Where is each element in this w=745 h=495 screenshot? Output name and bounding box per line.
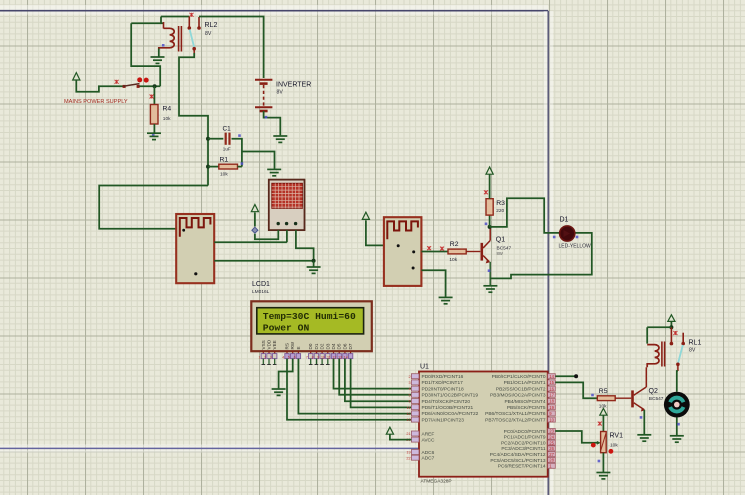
svg-text:VDD: VDD	[267, 339, 272, 349]
capacitor C1	[225, 133, 227, 145]
svg-text:D1: D1	[560, 217, 569, 224]
svg-text:PC6/RESET/PCINT14: PC6/RESET/PCINT14	[498, 464, 546, 470]
wire sensor3 lower to gnd	[421, 270, 445, 297]
svg-text:28: 28	[549, 458, 554, 463]
svg-text:11: 11	[407, 406, 411, 410]
svg-text:LCD1: LCD1	[252, 281, 270, 288]
sensor heater2 body	[384, 217, 422, 286]
svg-text:16: 16	[549, 386, 554, 391]
svg-text:PB5/SCK/PCINT5: PB5/SCK/PCINT5	[507, 405, 546, 411]
svg-text:AVCC: AVCC	[422, 437, 436, 443]
svg-text:PB1/OC1A/PCINT1: PB1/OC1A/PCINT1	[504, 380, 546, 386]
svg-text:Q2: Q2	[649, 388, 658, 395]
wire Q2 emitter	[643, 410, 645, 435]
sheet border halo bottom	[0, 445, 548, 448]
wire Q1 emitter down	[489, 262, 491, 286]
svg-text:26: 26	[549, 446, 554, 451]
resistor R5	[597, 396, 615, 401]
wire R3 top	[489, 174, 491, 198]
wire PC0 to RV1 wiper	[555, 431, 597, 443]
wire RL1 to fan	[677, 364, 679, 371]
node junction gnd mid	[312, 259, 316, 263]
battery INVERTER cell2	[255, 106, 272, 108]
svg-text:13: 13	[406, 418, 410, 422]
relay RL2 coil	[159, 28, 174, 49]
wire sensor1 pin lower	[214, 260, 313, 262]
relay RL2 switch pin left	[188, 17, 190, 28]
motor FAN	[664, 392, 690, 418]
svg-text:D0: D0	[308, 343, 313, 349]
wire AVCC	[390, 434, 412, 439]
svg-text:RW: RW	[290, 341, 295, 349]
svg-text:18: 18	[549, 399, 554, 404]
svg-text:23: 23	[549, 429, 554, 434]
svg-text:PC3/ADC3/PCINT11: PC3/ADC3/PCINT11	[501, 446, 545, 452]
wire LCD D7 to U1 PD5	[351, 359, 412, 408]
wire battery to ground	[264, 111, 281, 135]
resistor R1	[219, 164, 238, 169]
svg-text:Q1: Q1	[496, 237, 505, 244]
terminal arrow R3	[486, 167, 493, 174]
svg-text:D5: D5	[337, 343, 342, 349]
svg-text:PB4/MISO/PCINT4: PB4/MISO/PCINT4	[504, 399, 545, 405]
LED D1	[560, 226, 575, 241]
ground mid	[307, 267, 321, 273]
svg-text:4: 4	[408, 387, 410, 391]
svg-text:19: 19	[406, 451, 410, 455]
wire RL2 top to battery	[199, 17, 264, 79]
ground sensor3	[439, 297, 453, 303]
terminal arrow MAINS	[73, 73, 80, 80]
svg-text:ATMEGA328P: ATMEGA328P	[421, 479, 452, 485]
wire net to sensor1	[99, 186, 208, 229]
svg-text:PB6/TOSC1/XTAL1/PCINT6: PB6/TOSC1/XTAL1/PCINT6	[485, 411, 546, 417]
switch SW mains buttons	[137, 77, 142, 82]
LCD LM016L body	[251, 301, 371, 351]
wire D1 anode	[490, 198, 560, 233]
wire PB0 stub	[555, 375, 576, 377]
svg-text:24: 24	[549, 435, 554, 440]
resistor R4	[150, 105, 158, 125]
battery INVERTER dashed link	[263, 85, 265, 106]
svg-text:8W: 8W	[497, 251, 503, 256]
svg-text:PB3/MOSI/OC2A/PCINT3: PB3/MOSI/OC2A/PCINT3	[490, 393, 546, 399]
relay RL2 lever	[190, 30, 195, 48]
svg-text:R2: R2	[450, 241, 459, 248]
wire sensor3 to R2	[421, 251, 448, 253]
switch SW mains lever	[124, 84, 140, 87]
wire LCD RW to ground	[279, 359, 293, 389]
ground under R4	[147, 133, 161, 139]
terminal arrow sensor3	[362, 212, 369, 219]
svg-text:D6: D6	[342, 343, 347, 349]
svg-text:PD6/AIN0/OC0A/PCINT22: PD6/AIN0/OC0A/PCINT22	[422, 411, 479, 417]
svg-text:3: 3	[270, 356, 272, 360]
wire R2 to Q1 base	[466, 251, 480, 253]
wire DHT pin3	[296, 230, 314, 261]
sheet border halo top	[0, 5, 548, 10]
wire R1 right	[238, 166, 242, 168]
relay RL1 switch pin left	[670, 327, 672, 342]
wire mains horizontal	[76, 80, 123, 92]
svg-text:RL2: RL2	[205, 22, 218, 29]
sensor heater2 dots	[397, 244, 400, 247]
svg-text:PD1/TXD/PCINT17: PD1/TXD/PCINT17	[422, 380, 464, 386]
svg-text:1uF: 1uF	[223, 147, 231, 152]
IC U1 right pin boxes	[548, 374, 556, 379]
wire RL2 top	[131, 22, 163, 24]
wire sensor3 left	[366, 221, 384, 246]
svg-text:8: 8	[312, 356, 314, 360]
relay RL1 lever	[678, 345, 683, 363]
svg-text:10: 10	[549, 417, 554, 422]
svg-text:D2: D2	[320, 343, 325, 349]
wire LCD D5 to U1 PD3	[339, 359, 411, 395]
relay RL1 coil	[647, 345, 659, 368]
svg-text:6: 6	[294, 356, 296, 360]
ground fan	[670, 436, 684, 442]
switch SW mains contacts	[123, 85, 126, 88]
wire DHT pin2	[286, 230, 288, 242]
svg-text:RL1: RL1	[689, 340, 702, 347]
potentiometer RV1 body	[601, 432, 607, 453]
svg-text:21: 21	[406, 432, 410, 436]
svg-text:11: 11	[327, 356, 331, 360]
svg-text:7: 7	[306, 356, 308, 360]
svg-text:17: 17	[549, 393, 554, 398]
sheet border bottom	[0, 447, 548, 449]
sensor heater2 element	[387, 221, 418, 239]
svg-text:4: 4	[282, 356, 284, 360]
svg-text:PB0/ICP1/CLKO/PCINT0: PB0/ICP1/CLKO/PCINT0	[492, 374, 546, 380]
svg-text:Temp=30C Humi=60: Temp=30C Humi=60	[263, 311, 356, 322]
wire LCD E to U1 PD6	[298, 359, 411, 414]
sheet border halo right-vertical	[544, 11, 548, 495]
svg-text:PD2/INT0/PCINT18: PD2/INT0/PCINT18	[422, 386, 464, 392]
relay RL1 core	[661, 342, 663, 367]
sensor DHT pads	[277, 222, 280, 225]
svg-text:220: 220	[496, 208, 504, 214]
svg-text:9: 9	[317, 356, 319, 360]
svg-text:D1: D1	[314, 343, 319, 349]
ground RL2 coil	[151, 57, 165, 63]
svg-text:BC547: BC547	[649, 396, 664, 402]
wire to mid ground	[313, 261, 315, 267]
relay RL1 switch pin right	[682, 333, 684, 343]
svg-text:10: 10	[321, 356, 325, 360]
wire Q2 collector to RL1	[645, 367, 647, 387]
svg-text:14: 14	[549, 374, 554, 379]
wire C1 right / parallel link	[232, 139, 242, 167]
wire fan to ground	[676, 418, 678, 436]
svg-text:D7: D7	[348, 343, 353, 349]
ground battery	[273, 136, 287, 142]
wire RL2 common down	[193, 49, 195, 53]
svg-text:ADC7: ADC7	[422, 456, 435, 462]
relay RL2 switch pin right	[198, 17, 200, 27]
svg-text:U1: U1	[420, 364, 429, 371]
svg-text:PD3/INT1/OC2B/PCINT19: PD3/INT1/OC2B/PCINT19	[422, 393, 479, 399]
svg-text:PC5/ADC5/SCL/PCINT13: PC5/ADC5/SCL/PCINT13	[490, 458, 546, 464]
svg-text:2: 2	[408, 375, 410, 379]
svg-text:R3: R3	[496, 200, 505, 207]
terminal arrow RV1	[600, 408, 607, 415]
probe diamond	[252, 227, 258, 233]
svg-text:R5: R5	[599, 388, 608, 395]
terminal arrow RL1	[668, 315, 675, 322]
svg-text:22: 22	[406, 456, 410, 460]
svg-text:8V: 8V	[277, 90, 284, 96]
ground C1R1	[267, 169, 281, 175]
svg-text:2: 2	[264, 356, 266, 360]
node junction R3/Q1	[488, 225, 492, 229]
svg-text:D4: D4	[331, 343, 336, 349]
wire LCD RS to U1 PD7	[287, 359, 411, 420]
svg-text:8V: 8V	[205, 31, 212, 37]
sheet border top	[0, 10, 548, 12]
sensor heater1 dots	[182, 229, 185, 232]
svg-text:R1: R1	[220, 157, 229, 164]
wire Q1 emitter to D1 return	[490, 233, 592, 279]
wire RL1 top	[670, 321, 672, 327]
terminal arrow DHT	[251, 205, 258, 212]
ground RV1	[596, 473, 610, 479]
sensor heater1 body	[176, 214, 214, 283]
transistor Q2	[631, 390, 634, 407]
wire LCD D4 to U1 PD2	[334, 359, 412, 389]
ground Q2	[637, 435, 651, 441]
svg-text:PD4/T0/XCK/PCINT20: PD4/T0/XCK/PCINT20	[422, 399, 471, 405]
svg-text:6: 6	[408, 400, 410, 404]
IC U1 body	[419, 372, 548, 477]
svg-text:PC2/ADC2/PCINT10: PC2/ADC2/PCINT10	[501, 440, 546, 446]
svg-text:8V: 8V	[689, 348, 696, 354]
svg-text:3: 3	[408, 381, 410, 385]
svg-text:PD7/AIN1/PCINT23: PD7/AIN1/PCINT23	[422, 417, 465, 423]
svg-text:D3: D3	[325, 343, 330, 349]
svg-text:10k: 10k	[610, 443, 618, 449]
LCD screen	[257, 308, 364, 334]
svg-text:19: 19	[549, 405, 554, 410]
wire C1 left	[208, 138, 223, 140]
sensor heater1 element	[180, 218, 211, 237]
wire RV1 bottom	[602, 453, 604, 472]
svg-text:15: 15	[549, 380, 554, 385]
wire Q1 collector	[489, 227, 491, 241]
svg-text:PC1/ADC1/PCINT9: PC1/ADC1/PCINT9	[504, 435, 546, 441]
wire R4 top	[153, 86, 155, 104]
svg-text:LED-YELLOW: LED-YELLOW	[559, 244, 592, 250]
sheet border right-vertical	[547, 11, 549, 495]
svg-text:5: 5	[288, 356, 290, 360]
IC U1 left pin boxes	[411, 374, 419, 379]
svg-text:ADC6: ADC6	[422, 450, 435, 456]
resistor R2	[448, 249, 466, 254]
potentiometer RV1 wiper arrow	[597, 441, 601, 445]
ground LCD	[272, 389, 286, 395]
svg-text:PB7/TOSC2/XTAL2/PCINT7: PB7/TOSC2/XTAL2/PCINT7	[485, 417, 546, 423]
svg-text:Power ON: Power ON	[263, 322, 310, 333]
sensor DHT matrix	[272, 183, 303, 208]
wire sensor1 pin upper	[214, 241, 287, 243]
svg-text:C1: C1	[223, 126, 232, 133]
RV1 red dots	[591, 443, 596, 448]
LCD pin stubs and number boxes	[262, 351, 264, 353]
svg-text:5: 5	[408, 393, 410, 397]
svg-text:10k: 10k	[163, 116, 171, 122]
wire to ground tap	[242, 152, 275, 169]
svg-text:R4: R4	[163, 106, 172, 113]
svg-text:PD5/T1/OC0B/PCINT21: PD5/T1/OC0B/PCINT21	[422, 405, 474, 411]
wire RV1 top	[602, 415, 604, 431]
node junction mains/R4	[153, 84, 157, 88]
svg-text:10k: 10k	[449, 257, 457, 263]
svg-text:VSS: VSS	[261, 340, 266, 349]
sensor DHT body	[269, 180, 305, 231]
svg-text:E: E	[296, 346, 301, 349]
wire LCD D6 to U1 PD4	[345, 359, 412, 402]
svg-text:INVERTER: INVERTER	[276, 82, 311, 89]
svg-text:12: 12	[406, 412, 410, 416]
svg-text:27: 27	[549, 452, 554, 457]
relay RL2 coil pin top	[163, 22, 165, 29]
wire DHT pin1	[255, 230, 278, 239]
wire PB1 to R5	[555, 382, 597, 398]
svg-text:AREF: AREF	[422, 431, 435, 437]
svg-text:LM016L: LM016L	[252, 289, 270, 295]
svg-text:VEE: VEE	[272, 340, 277, 349]
svg-text:PB2/SS/OC1B/PCINT2: PB2/SS/OC1B/PCINT2	[496, 386, 546, 392]
node junction R1	[206, 165, 210, 169]
svg-text:1: 1	[259, 356, 261, 360]
wire RL2 coil to ground	[158, 49, 160, 57]
svg-text:10k: 10k	[220, 172, 228, 178]
wire R5 to Q2 base	[615, 397, 631, 399]
transistor Q1	[481, 243, 484, 261]
resistor R3	[486, 199, 493, 215]
svg-text:RS: RS	[285, 343, 290, 349]
svg-text:PC0/ADC0/PCINT8: PC0/ADC0/PCINT8	[504, 429, 546, 435]
wire R4 bottom	[153, 124, 155, 133]
unconnected marker	[115, 80, 119, 84]
svg-text:MAINS POWER SUPPLY: MAINS POWER SUPPLY	[64, 99, 128, 105]
wire R1 left	[208, 166, 219, 168]
battery INVERTER cell1	[255, 79, 272, 81]
svg-text:PD0/RXD/PCINT16: PD0/RXD/PCINT16	[422, 374, 464, 380]
terminal arrow AVCC	[386, 427, 393, 434]
wire R3 bottom	[489, 215, 491, 227]
wire RL2 left loop	[131, 23, 160, 86]
ground Q1	[483, 286, 497, 292]
node junction C1	[206, 137, 210, 141]
svg-text:RV1: RV1	[610, 433, 624, 440]
relay RL2 core	[178, 26, 180, 52]
svg-text:25: 25	[549, 440, 554, 445]
svg-text:PC4/ADC4/SDA/PCINT12: PC4/ADC4/SDA/PCINT12	[490, 452, 546, 458]
